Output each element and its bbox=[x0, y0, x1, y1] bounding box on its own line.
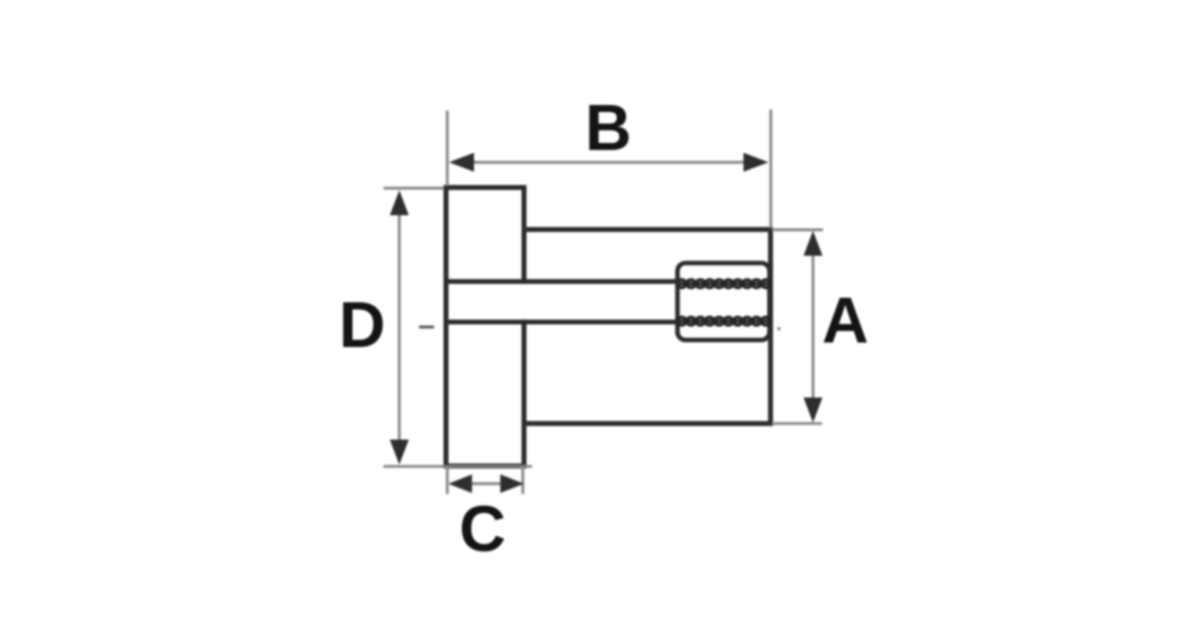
svg-text:B: B bbox=[585, 92, 632, 164]
thread crest wavy line upper bbox=[677, 280, 771, 288]
hole line top (bore upper line) bbox=[446, 279, 678, 284]
centerline tick bbox=[419, 326, 434, 329]
dimension C arrowhead right bbox=[500, 474, 524, 493]
thread crest wavy line lower bbox=[677, 317, 771, 325]
dimension C extension line right bbox=[521, 467, 524, 494]
dimension B arrowhead left bbox=[449, 153, 474, 172]
svg-text:A: A bbox=[822, 285, 869, 357]
svg-text:C: C bbox=[459, 493, 506, 565]
dimension B arrowhead right bbox=[744, 153, 769, 172]
dimension A extension line top bbox=[772, 228, 823, 231]
dimension B line bbox=[462, 161, 756, 164]
dimension C extension line left bbox=[446, 467, 449, 494]
hole line bottom (bore lower line) bbox=[446, 320, 678, 325]
dimension D extension line bottom bbox=[384, 465, 533, 468]
svg-text:D: D bbox=[339, 289, 386, 361]
dimension A arrowhead top bbox=[804, 231, 823, 256]
dimension D arrowhead bottom bbox=[390, 440, 409, 465]
flange outline (left vertical rectangle of part) bbox=[446, 188, 524, 467]
dimension A arrowhead bottom bbox=[804, 398, 823, 423]
dimension D extension line top bbox=[384, 187, 445, 190]
dimension A line bbox=[812, 243, 815, 411]
thread outline (rounded rectangle of tapped section) bbox=[678, 263, 770, 340]
dimension A extension line bottom bbox=[772, 422, 822, 425]
body outline (horizontal rectangle of part) bbox=[524, 230, 771, 424]
dimension D line bbox=[398, 203, 401, 452]
dimension C line bbox=[464, 482, 508, 485]
dimension B extension line left bbox=[446, 111, 449, 187]
stray speck bbox=[777, 327, 780, 330]
dimension B extension line right bbox=[769, 110, 772, 229]
dimension D arrowhead top bbox=[390, 190, 409, 215]
dimension C arrowhead left bbox=[448, 474, 472, 493]
